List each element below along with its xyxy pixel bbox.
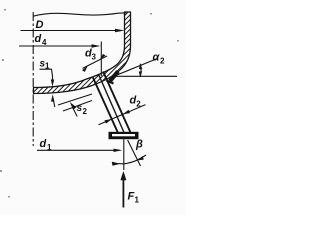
svg-text:2: 2 [160, 57, 165, 66]
dimension s2 leader arrow [70, 102, 78, 117]
dimension d2 line with arrows [99, 105, 146, 125]
svg-text:1: 1 [47, 143, 52, 152]
angle alpha2 dimension arc with arrows [139, 64, 143, 77]
label d2 [130, 95, 142, 109]
svg-text:F: F [128, 191, 135, 203]
label s2 [77, 103, 88, 116]
label d1 [40, 138, 53, 152]
dimension s2 extension lines [58, 94, 92, 111]
angle beta vertical reference line [123, 139, 125, 170]
force F1 arrow [120, 171, 126, 208]
stub tube bore line [98, 74, 124, 133]
label d4 [35, 33, 48, 47]
centerline (vertical axis) [32, 12, 34, 146]
label s1 [40, 59, 51, 71]
shell wall section band (hatched cross-section) [34, 12, 131, 94]
svg-text:d: d [40, 138, 47, 150]
dimension D line and arrow [21, 29, 125, 32]
dimension d4 line, arrow and extension line [19, 42, 101, 77]
label F1 [128, 191, 140, 205]
svg-text:D: D [36, 19, 44, 31]
svg-text:2: 2 [83, 107, 88, 116]
angle alpha2 inclined leg [114, 58, 158, 76]
flare lip seam at shell junction [107, 72, 119, 84]
dimension d1 line and arrow [37, 149, 122, 152]
angle beta inclined stub-axis line [128, 140, 141, 166]
svg-text:2: 2 [136, 100, 141, 109]
flange plate (section) [109, 132, 139, 139]
stub tube outer-left wall line [93, 78, 118, 133]
angle alpha2 horizontal leg [114, 75, 177, 77]
svg-text:3: 3 [92, 53, 97, 62]
svg-text:d: d [35, 33, 42, 45]
svg-text:4: 4 [42, 38, 47, 47]
scan speckles [0, 9, 179, 198]
dimension s1 leader and thickness arrows [40, 69, 55, 107]
label alpha2 [153, 52, 166, 66]
dimension d3 line with arrows [82, 54, 107, 72]
angle beta dimension arc with arrows [112, 155, 146, 166]
svg-text:β: β [135, 139, 143, 151]
label d3 [85, 48, 97, 62]
break (wavy) line at top of shell [33, 13, 126, 16]
svg-text:1: 1 [135, 196, 140, 205]
stub tube outer-right wall line [103, 72, 130, 133]
